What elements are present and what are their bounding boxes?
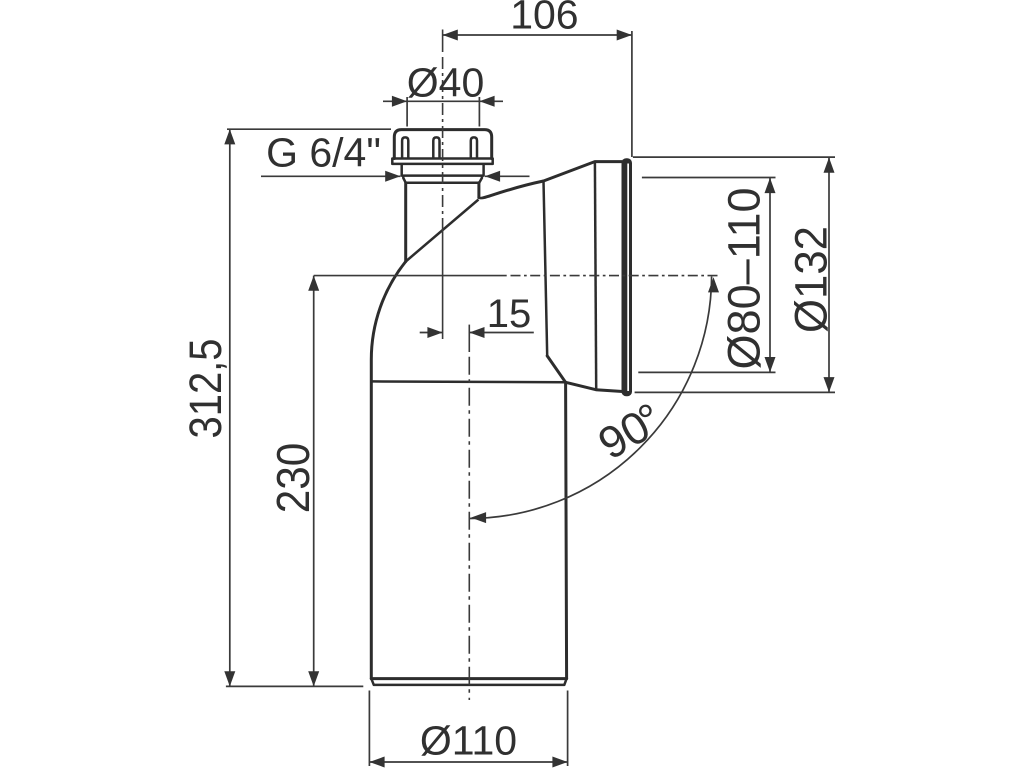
- union nut cap: [394, 130, 491, 159]
- elbow shoulder curve: [479, 181, 544, 198]
- dimension Ø132: [828, 158, 830, 393]
- cap grip slot 3: [471, 137, 477, 158]
- socket centerline: [314, 275, 507, 277]
- inlet centerline: [442, 30, 444, 53]
- shared bottom extension line: [226, 685, 363, 687]
- body transition seam: [406, 200, 479, 262]
- cap bottom lip: [392, 159, 492, 164]
- socket cone top edge: [544, 162, 622, 181]
- svg-text:106: 106: [510, 0, 578, 38]
- svg-text:G 6/4": G 6/4": [266, 130, 381, 176]
- cap grip slot 1: [402, 137, 408, 158]
- dimension 15: [420, 332, 443, 334]
- pipe right wall: [566, 382, 567, 678]
- outlet sealing ring: [622, 158, 633, 396]
- svg-text:Ø132: Ø132: [786, 226, 837, 333]
- pipe bottom rim: [371, 677, 566, 680]
- svg-text:Ø80–110: Ø80–110: [719, 188, 770, 370]
- socket bottom diagonal: [547, 356, 565, 382]
- dimension Ø40: [383, 100, 503, 102]
- 90 degree angle arc: [469, 277, 712, 519]
- svg-text:15: 15: [487, 292, 532, 336]
- elbow outer bend and pipe left wall: [371, 262, 405, 679]
- svg-text:312,5: 312,5: [180, 339, 231, 439]
- inlet neck left wall: [404, 183, 407, 262]
- dimension 106: [443, 34, 632, 36]
- svg-text:230: 230: [267, 443, 319, 514]
- thread collar band: [402, 164, 484, 176]
- pipe centerline: [468, 325, 470, 352]
- dimension 312,5: [229, 129, 231, 686]
- socket seam right: [595, 162, 596, 390]
- body horizontal seam: [371, 380, 565, 383]
- svg-text:Ø40: Ø40: [407, 60, 485, 106]
- dimension Ø110: [369, 761, 567, 763]
- dimension G 6/4": [261, 175, 400, 177]
- dimension 230: [313, 276, 315, 687]
- svg-text:Ø110: Ø110: [420, 718, 517, 764]
- dimension Ø80–110: [769, 178, 771, 372]
- socket cone bottom edge: [566, 382, 623, 391]
- cap grip slot 2: [433, 137, 439, 158]
- inlet neck right wall: [477, 183, 480, 198]
- thread collar chamfer: [403, 176, 482, 183]
- socket seam left: [544, 181, 548, 356]
